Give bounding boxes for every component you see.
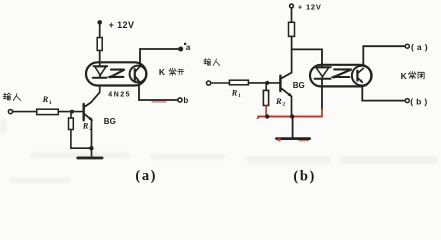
svg-text:4N25: 4N25	[108, 91, 131, 98]
light arrows (Z) of 4N25 (a)	[107, 70, 125, 79]
optocoupler 4N25 body (a)	[86, 62, 146, 85]
red scan mark on b wire	[152, 101, 166, 103]
wire emitter to terminal (b) of relay contact (b)	[362, 86, 405, 100]
resistor R2 (b)	[263, 83, 268, 106]
light arrows (Z) of optocoupler (b)	[330, 69, 351, 79]
input terminal circle (a)	[8, 110, 36, 114]
svg-text:R: R	[42, 94, 49, 104]
red wire R2 to ground rail (b)	[265, 106, 267, 117]
phototransistor of 4N25 (a)	[130, 66, 147, 83]
label a	[184, 43, 191, 52]
wire R2 bottom to emitter	[71, 147, 92, 149]
input terminal circle (b)	[207, 81, 230, 85]
resistor R2 (a)	[69, 112, 74, 149]
junction R2/rail (b)	[265, 114, 269, 118]
transistor BG (a)	[84, 86, 100, 157]
wire: phototransistor collector to terminal a	[140, 49, 178, 66]
svg-text:R: R	[231, 87, 238, 97]
+12V supply terminal (b)	[290, 4, 294, 22]
ground wire (b)	[292, 117, 294, 138]
black part of LED cathode wire (b)	[321, 79, 323, 110]
terminal b circle	[178, 98, 182, 102]
R2 label (b)	[275, 96, 285, 108]
R1 label (a)	[42, 94, 52, 106]
terminal (b) circle (b)	[405, 99, 409, 103]
circuit (a) : +12V supply terminal	[97, 20, 102, 37]
resistor R1 (a)	[37, 109, 59, 114]
svg-text:+ 12V: + 12V	[298, 2, 322, 11]
red ground rail (b)	[257, 116, 322, 118]
svg-text:BG: BG	[104, 117, 116, 126]
resistor R1 (b)	[229, 80, 248, 85]
R1 label (b)	[231, 87, 241, 99]
wire R1 to base node (b)	[248, 82, 279, 84]
transistor BG (b)	[280, 73, 291, 117]
wire collector node to LED anode (b)	[292, 49, 322, 67]
LED of 4N25 (a)	[93, 66, 108, 78]
wire collector to terminal (a) of relay contact (b)	[363, 46, 405, 65]
ground (a)	[78, 156, 102, 159]
svg-text:(a): (a)	[135, 168, 157, 184]
svg-text:R: R	[82, 120, 89, 130]
wire: phototransistor emitter to terminal b	[139, 82, 178, 100]
optocoupler body (b)	[310, 65, 371, 87]
K 常闭 label (b)	[401, 71, 408, 81]
terminal (a) circle (b)	[405, 44, 409, 48]
svg-text:a: a	[186, 43, 191, 52]
resistor (collector load, a)	[97, 38, 102, 67]
junction emitter/ground (a)	[89, 146, 93, 150]
svg-text:b: b	[183, 96, 188, 105]
K 常开 label (a)	[159, 67, 166, 77]
svg-text:+ 12V: + 12V	[109, 20, 135, 30]
LED of optocoupler (b)	[315, 67, 331, 79]
junction base node (a)	[70, 110, 74, 114]
circuit (b) : 输入 input label	[204, 59, 220, 66]
svg-text:(a): (a)	[411, 42, 431, 52]
svg-text:2: 2	[282, 102, 285, 108]
R2 label (a)	[82, 120, 92, 132]
junction emitter/rail (b)	[290, 114, 294, 118]
resistor (collector load, b)	[289, 22, 295, 72]
terminal a dot	[178, 47, 183, 52]
svg-text:BG: BG	[293, 81, 305, 90]
phototransistor of optocoupler (b)	[352, 66, 372, 86]
svg-text:K: K	[159, 67, 166, 77]
svg-text:1: 1	[238, 93, 241, 99]
ground bar (b)	[277, 138, 310, 142]
svg-text:K: K	[401, 71, 408, 81]
svg-text:R: R	[275, 96, 282, 106]
wire R1 to base node	[58, 111, 83, 113]
svg-text:(b): (b)	[293, 168, 316, 184]
svg-text:1: 1	[49, 100, 52, 106]
junction base node (b)	[265, 81, 269, 85]
svg-text:(b): (b)	[410, 96, 430, 106]
输入 input label (a)	[3, 93, 20, 100]
red part of LED cathode wire (b)	[321, 109, 323, 116]
faint scan smudges	[0, 119, 438, 183]
